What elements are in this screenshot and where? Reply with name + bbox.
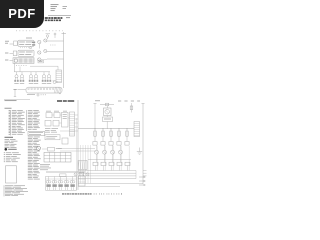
motor M101: [14, 59, 17, 62]
bottom notes bracket: [3, 185, 5, 196]
label under Q110: [14, 82, 18, 85]
IC U101: [18, 40, 34, 46]
IC U207: [62, 138, 68, 144]
driver box x103: [101, 142, 105, 146]
IC U102: [18, 50, 34, 56]
small box with cross: [80, 172, 84, 176]
small box with label: [48, 147, 55, 151]
IC U201: [46, 113, 52, 118]
IC U203 tall: [62, 112, 69, 127]
transistor Q310: [74, 173, 77, 176]
parts list column 1: [9, 109, 10, 112]
labels under ribbon: [27, 93, 35, 96]
label above row A: [26, 37, 32, 40]
IC U202: [54, 113, 60, 118]
resistor R101: [32, 42, 35, 43]
resistor R4127: [126, 131, 128, 136]
crystal X1: [46, 33, 51, 35]
fuse F1: [100, 104, 114, 106]
bullet note: [5, 148, 8, 151]
ribbon cable connector CN110: [26, 87, 62, 93]
table footnote rows: [40, 163, 50, 166]
driver box x111: [109, 142, 113, 146]
pin row R301: [46, 184, 50, 187]
empty spec box: [6, 166, 17, 183]
pickup coil symbol: [53, 81, 56, 84]
power bus: [78, 128, 134, 130]
vertical drop wires: [80, 145, 82, 183]
uploader info text: [51, 3, 59, 6]
label 24V: [5, 40, 9, 43]
pin row R303: [58, 184, 62, 187]
driver box x95: [93, 142, 97, 146]
transistor Q311: [86, 173, 89, 176]
transistor Q104: [44, 49, 47, 52]
wires blocks to ladder: [52, 114, 54, 116]
arrow into row C: [5, 59, 8, 62]
value labels row A: [50, 44, 56, 46]
ribbon hatch: [54, 87, 55, 92]
resistor pair R113: [34, 80, 36, 82]
transistor Q101: [38, 40, 41, 43]
parts list column 1 bracket: [10, 110, 12, 135]
transistor Q103: [38, 51, 41, 54]
power transistor Q301: [48, 177, 50, 181]
resistor pair R115: [47, 80, 49, 82]
node junction A: [20, 47, 29, 49]
transistor Q115: [48, 72, 50, 75]
junction node x111: [110, 128, 111, 129]
wire row B to bus: [47, 51, 64, 53]
hatched box right of outputs: [78, 161, 87, 170]
bus riser: [135, 171, 137, 179]
page2 top rule: [4, 99, 30, 101]
wire left branch vertical: [94, 104, 96, 129]
junction node x103: [102, 128, 103, 129]
page2 header right marks: [95, 99, 100, 102]
right edge pin stubs: [143, 170, 147, 172]
power entry mark: [62, 33, 67, 35]
transistor Q110: [16, 72, 18, 75]
right rail: [142, 104, 144, 185]
relay K1: [104, 108, 112, 116]
note box: [28, 131, 45, 135]
horizontal link wires: [58, 148, 95, 150]
transistor array: [96, 145, 98, 150]
resistor R4111: [110, 131, 112, 136]
wiring symbol circle: [37, 146, 41, 150]
transistor Q105: [38, 58, 41, 61]
document title line 1: [45, 17, 63, 19]
power transistor Q303: [60, 177, 62, 181]
arrow into ribbon: [14, 88, 17, 91]
bus node line right: [63, 38, 65, 88]
caption text: [62, 193, 122, 195]
wire row A to bus: [47, 40, 64, 42]
test point dash row: [16, 30, 63, 32]
connector ladder CN301: [134, 122, 140, 137]
output block label: [60, 174, 67, 177]
transistor Q114: [43, 72, 45, 75]
connector box right of output block: [79, 176, 86, 186]
power transistor Q304: [66, 177, 68, 181]
wire row C to bus: [47, 58, 64, 60]
bus line above transistor row: [14, 71, 50, 73]
arrow into row B: [5, 52, 8, 55]
parts list column 2: [28, 109, 33, 112]
resistor pair R111: [20, 80, 22, 82]
connector strip hatch: [13, 58, 15, 62]
output block frame: [46, 177, 77, 191]
connector CN101: [14, 41, 18, 46]
document title line 2: [45, 19, 62, 21]
bottom bus lines: [78, 170, 136, 172]
ground symbol: [139, 148, 141, 152]
page2 header left text: [5, 99, 17, 102]
resistor row 2: [93, 162, 98, 165]
IC U204: [45, 120, 51, 126]
lower bus lines: [78, 182, 143, 184]
connector strip CN103: [13, 58, 34, 64]
wire Q105 stub: [41, 59, 47, 61]
pin row R302: [52, 184, 56, 187]
branch wire x119: [118, 129, 120, 142]
parts list column 2 bracket: [26, 110, 28, 131]
resistor pair R114: [42, 80, 44, 82]
arrow into row A: [10, 43, 14, 45]
label box under relay: [103, 117, 113, 122]
junction node x127: [126, 128, 127, 129]
connector ladder CN104: [56, 70, 62, 83]
PDF badge: [0, 0, 44, 28]
connector wires to right rail: [75, 114, 79, 116]
driver box x127: [125, 142, 129, 146]
wire fuse to relay: [107, 106, 109, 108]
transistor Q113: [35, 72, 37, 75]
transistor Q102: [44, 39, 47, 42]
label under Q115: [47, 82, 51, 85]
mid bus line: [88, 159, 131, 161]
parts list column 1 second block: [5, 138, 10, 141]
text rows under ICs: [45, 127, 50, 130]
pin row R305: [70, 184, 74, 187]
label under Q113: [34, 82, 38, 85]
power transistor Q302: [54, 177, 56, 181]
left rail second wire: [76, 118, 78, 190]
junction node x119: [118, 128, 119, 129]
header rule: [48, 14, 71, 16]
branch wire x103: [102, 129, 104, 142]
left rail of right circuit: [77, 100, 79, 190]
resistor R4119: [118, 131, 120, 136]
wire relay to bus: [106, 122, 108, 129]
wire center down: [19, 67, 21, 72]
label box upper: [38, 60, 44, 63]
IC U206 wide: [45, 135, 60, 140]
label under Q111: [20, 82, 24, 85]
power transistor Q305: [72, 177, 74, 181]
label under Q114: [42, 82, 46, 85]
page2 title SCHEMATIC DIAGRAM: [57, 100, 75, 102]
block labels: [46, 110, 51, 113]
transistor Q111: [21, 72, 23, 75]
parts list column 1 caption: [5, 107, 12, 110]
IC U101 pin text: [19, 41, 25, 44]
IC U205: [53, 120, 59, 126]
bottom notes list: [5, 184, 13, 187]
driver box x119: [117, 142, 121, 146]
parts list column 1 header: [5, 136, 14, 139]
parallel column wires: [96, 146, 98, 171]
diode D1: [131, 103, 133, 113]
wire Q101 down: [38, 44, 40, 49]
branch wire x95: [94, 129, 96, 142]
signal arrows: [139, 176, 146, 178]
resistor R4103: [102, 131, 104, 136]
label under Q112: [29, 82, 33, 85]
pin row R304: [64, 184, 68, 187]
resistor pair R112: [29, 80, 31, 82]
resistor R495: [94, 131, 96, 136]
branch wire x127: [126, 129, 128, 142]
branch wire x111: [110, 129, 112, 142]
numbered list: [4, 151, 5, 154]
wire left down: [14, 63, 16, 71]
transistor Q112: [30, 72, 32, 75]
signal table: [44, 152, 71, 162]
junction node x95: [94, 128, 95, 129]
connector ladder CN201: [70, 112, 75, 136]
connector CN102: [13, 51, 17, 56]
resistor pair R110: [14, 80, 16, 82]
wire ribbon left down: [14, 90, 16, 97]
output block inner rail: [46, 178, 77, 180]
uploader info column 2: [63, 5, 68, 8]
capacitor C1: [54, 33, 56, 35]
upper link wire: [30, 65, 58, 67]
output bus wires: [46, 170, 85, 172]
title dash: [66, 17, 70, 19]
IC U102 pin text: [19, 51, 25, 54]
dash row under row C: [16, 65, 28, 67]
parts list column 2 lower: [28, 136, 33, 139]
bus bottom dot: [59, 93, 60, 94]
